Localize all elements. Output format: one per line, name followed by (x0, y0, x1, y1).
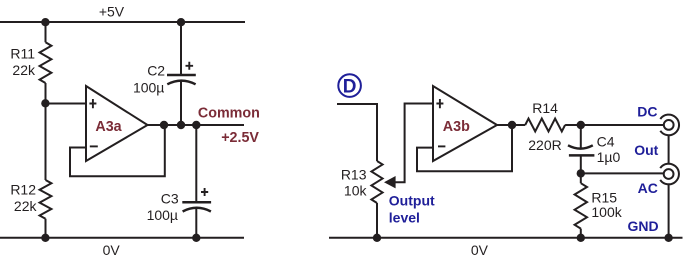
A3a non-inverting pin + (89, 99, 96, 108)
op-amp A3b (433, 86, 497, 161)
svg-text:0V: 0V (471, 242, 489, 258)
wire output node to C3 (195, 125, 197, 202)
svg-text:10k: 10k (344, 182, 368, 198)
node D circle (338, 74, 361, 97)
svg-text:100k: 100k (591, 204, 622, 220)
A3a output wire to Common (148, 124, 245, 126)
resistor R12 (40, 180, 52, 219)
svg-text:Out: Out (634, 142, 658, 158)
resistor R15 (575, 183, 587, 228)
junction A3b output (508, 121, 516, 129)
terminal AC (phono socket) (660, 164, 679, 185)
capacitor C2 (167, 75, 196, 84)
svg-text:22k: 22k (14, 198, 38, 214)
svg-text:D: D (343, 77, 357, 98)
svg-text:0V: 0V (103, 242, 121, 258)
svg-text:AC: AC (638, 180, 658, 196)
junction AC node (577, 169, 585, 177)
capacitor C4 (568, 145, 594, 155)
A3a feedback wire (70, 125, 165, 176)
svg-text:R14: R14 (532, 100, 558, 116)
wire R15 to 0V (580, 229, 582, 238)
svg-text:+5V: +5V (99, 3, 125, 19)
wire AC node to R15 (580, 173, 582, 183)
C2 polarity + (186, 62, 194, 70)
A3b non-inverting pin + (436, 99, 443, 108)
svg-text:R15: R15 (591, 189, 617, 205)
junction on +5V rail at R11 (41, 18, 49, 26)
svg-text:A3b: A3b (443, 119, 470, 135)
junction on 0V rail at R15 (577, 234, 585, 242)
wire +5V to R11 (45, 22, 47, 42)
A3b inverting pin - (438, 145, 445, 147)
wire node to R12 (45, 103, 47, 180)
svg-text:Common: Common (198, 105, 260, 121)
A3a inverting pin - (90, 145, 98, 147)
wire C4 to AC node (580, 155, 582, 173)
R13 wiper arrow (384, 176, 396, 188)
junction on +5V rail at C2 (177, 18, 185, 26)
svg-text:100µ: 100µ (147, 207, 178, 223)
svg-text:Output: Output (389, 193, 435, 209)
+5V supply rail (0, 21, 245, 23)
svg-text:C3: C3 (161, 190, 179, 206)
wire node D to R13 (337, 104, 377, 161)
terminal DC (phono socket) (660, 115, 679, 136)
ground bus AC shield to 0V (668, 185, 670, 238)
resistor R11 (40, 42, 52, 83)
junction C4 tap (577, 121, 585, 129)
wire R12 to 0V (45, 219, 47, 238)
ground bus DC to AC shield (668, 135, 670, 164)
junction on 0V rail at C3 (192, 234, 200, 242)
capacitor C3 (182, 202, 211, 211)
0V rail left (0, 237, 244, 239)
junction C2 on output (177, 121, 185, 129)
wire C2 to output node (180, 82, 182, 126)
svg-text:R11: R11 (10, 45, 35, 61)
C3 polarity + (201, 188, 208, 196)
wiper wire to A3b + input (395, 104, 433, 183)
potentiometer R13 (371, 161, 382, 203)
junction on 0V rail at R13 (373, 234, 381, 242)
wire R14 to DC terminal (565, 124, 663, 126)
junction C3 on output (192, 121, 200, 129)
junction divider node (41, 99, 49, 107)
svg-text:22k: 22k (12, 62, 36, 78)
svg-text:DC: DC (637, 104, 657, 120)
0V rail right (329, 237, 683, 239)
svg-text:C4: C4 (597, 133, 615, 149)
wire R13 to 0V (376, 203, 378, 238)
wire R11 to node (45, 83, 47, 103)
svg-text:220R: 220R (528, 137, 561, 153)
wire node to A3a + input (46, 103, 87, 105)
junction on 0V rail at R12 (41, 234, 49, 242)
A3b output wire to R14 (497, 124, 525, 126)
wire C3 to 0V (195, 209, 197, 238)
svg-text:100µ: 100µ (133, 79, 164, 95)
svg-text:1µ0: 1µ0 (597, 149, 621, 165)
junction on 0V rail at GND (664, 234, 672, 242)
wire node to C4 (580, 125, 582, 148)
svg-text:GND: GND (627, 218, 658, 234)
svg-text:A3a: A3a (95, 119, 122, 135)
svg-text:level: level (389, 209, 420, 225)
junction feedback on output (160, 121, 168, 129)
svg-text:R13: R13 (341, 166, 367, 182)
svg-text:+2.5V: +2.5V (221, 130, 259, 146)
svg-text:C2: C2 (147, 62, 165, 78)
wire +5V rail to C2 (180, 22, 182, 75)
op-amp A3a (86, 86, 148, 161)
resistor R14 (525, 119, 565, 132)
svg-text:R12: R12 (10, 181, 36, 197)
A3b feedback wire (417, 125, 512, 171)
wire AC node to AC terminal (581, 172, 663, 174)
